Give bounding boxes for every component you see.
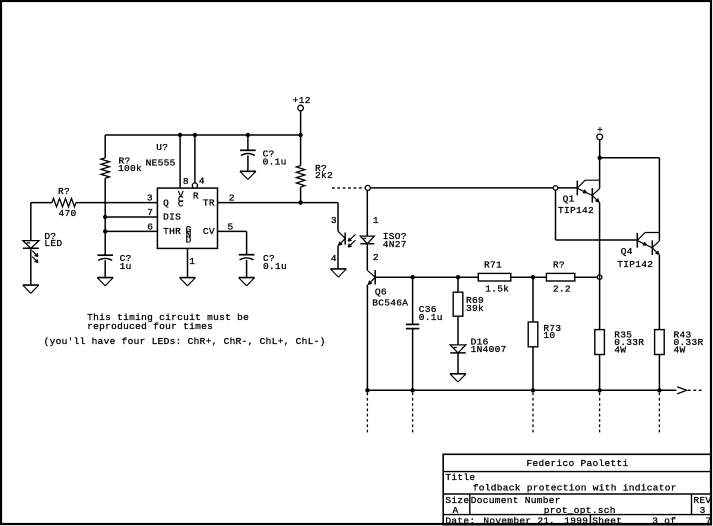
svg-text:0.1u: 0.1u (263, 156, 287, 167)
svg-text:+12: +12 (293, 95, 311, 106)
svg-text:TIP142: TIP142 (617, 259, 653, 270)
svg-text:BC546A: BC546A (372, 298, 408, 309)
svg-text:2: 2 (229, 193, 235, 204)
svg-text:5: 5 (228, 222, 234, 233)
svg-text:7: 7 (147, 207, 153, 218)
svg-text:Q6: Q6 (375, 287, 387, 298)
svg-text:prot_opt.sch: prot_opt.sch (544, 505, 616, 516)
svg-text:Q1: Q1 (563, 193, 575, 204)
svg-text:4W: 4W (674, 345, 686, 356)
svg-text:2: 2 (373, 252, 379, 263)
svg-text:THR: THR (163, 226, 181, 237)
svg-text:0.1u: 0.1u (419, 312, 443, 323)
svg-text:LED: LED (44, 238, 62, 249)
svg-text:GND: GND (186, 224, 192, 246)
svg-text:3: 3 (147, 193, 153, 204)
svg-text:Q: Q (163, 198, 169, 209)
svg-text:10: 10 (543, 330, 555, 341)
svg-text:1: 1 (189, 256, 195, 267)
svg-text:reproduced four times: reproduced four times (87, 321, 213, 332)
svg-text:7: 7 (706, 515, 712, 526)
svg-text:R: R (193, 190, 199, 201)
svg-text:1999: 1999 (564, 515, 588, 526)
svg-text:November 21,: November 21, (483, 515, 555, 526)
svg-text:3 of: 3 of (652, 515, 676, 526)
svg-text:A: A (453, 505, 459, 516)
svg-text:(you'll have four LEDs: ChR+,: (you'll have four LEDs: ChR+, ChR-, ChL+… (44, 336, 326, 347)
svg-text:+: + (597, 124, 603, 135)
svg-text:TR: TR (203, 198, 215, 209)
svg-text:Date:: Date: (445, 515, 475, 526)
svg-text:VCC: VCC (178, 189, 184, 209)
svg-text:1: 1 (373, 215, 379, 226)
svg-text:4N27: 4N27 (383, 239, 407, 250)
svg-text:Federico Paoletti: Federico Paoletti (527, 458, 629, 469)
svg-text:R?: R? (58, 186, 70, 197)
svg-text:4W: 4W (614, 345, 626, 356)
svg-text:NE555: NE555 (146, 157, 176, 168)
svg-text:Title: Title (445, 472, 475, 483)
svg-text:2.2: 2.2 (553, 283, 571, 294)
svg-text:4: 4 (199, 176, 205, 187)
svg-text:2k2: 2k2 (315, 170, 333, 181)
svg-text:CV: CV (203, 226, 215, 237)
svg-text:foldback protection with indic: foldback protection with indicator (473, 483, 677, 494)
svg-text:39k: 39k (466, 303, 484, 314)
svg-text:1.5k: 1.5k (485, 283, 509, 294)
svg-text:R?: R? (553, 260, 565, 271)
svg-text:4: 4 (331, 253, 337, 264)
svg-text:3: 3 (331, 215, 337, 226)
svg-text:6: 6 (147, 222, 153, 233)
svg-text:3: 3 (700, 505, 706, 516)
svg-text:1N4007: 1N4007 (471, 344, 507, 355)
svg-text:470: 470 (59, 208, 77, 219)
svg-text:Q4: Q4 (621, 246, 633, 257)
svg-text:Sheet: Sheet (592, 515, 622, 526)
svg-text:R71: R71 (484, 260, 502, 271)
svg-text:U?: U? (156, 142, 168, 153)
svg-text:1u: 1u (120, 261, 132, 272)
svg-text:TIP142: TIP142 (558, 205, 594, 216)
svg-text:8: 8 (183, 176, 189, 187)
svg-text:0.1u: 0.1u (263, 261, 287, 272)
svg-text:DIS: DIS (163, 211, 181, 222)
svg-text:100k: 100k (118, 163, 142, 174)
